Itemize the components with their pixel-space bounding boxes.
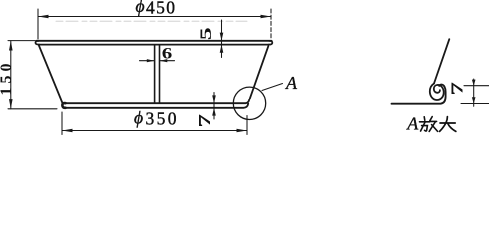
detail dimension 7 extension line top (464, 85, 489, 87)
dimension phi350 extension line right (246, 116, 248, 135)
dimension 5 line with outside arrows (220, 20, 224, 58)
vessel bottom lower line (64, 104, 248, 108)
svg-text:5: 5 (198, 27, 215, 40)
dimension 150 extension line top (8, 40, 35, 42)
dimension phi450 extension line left (37, 9, 39, 39)
label A (285, 73, 298, 93)
svg-text:A: A (285, 73, 298, 93)
dimension 6 left arrow segment (140, 59, 155, 62)
dimension text 5 (rotated) (198, 27, 215, 40)
dimension text 150 (rotated) (0, 60, 15, 96)
dimension 6 right arrow segment (160, 59, 175, 62)
dimension 150 extension line bottom (8, 108, 57, 110)
leader line to label A (262, 84, 283, 91)
vessel left wall (39, 46, 63, 104)
detail view curled edge spiral (430, 84, 444, 101)
detail view wall diagonal (434, 39, 449, 83)
detail dimension 7 extension line bottom (461, 103, 489, 105)
svg-text:ϕ350: ϕ350 (134, 107, 179, 128)
vessel rim top line (36, 40, 271, 42)
detail circle A (233, 87, 265, 119)
detail label glyph DA (enlarge) (440, 117, 456, 132)
vessel rim right rolled end (269, 41, 273, 45)
vessel rim bottom line (39, 44, 270, 46)
detail view bottom sheet with upturned end (392, 85, 446, 104)
dimension text phi450 (136, 0, 177, 17)
dimension phi350 line with arrows (62, 129, 247, 133)
dimension 7 (main) line with outside arrows (212, 93, 216, 120)
dimension text 6 (162, 46, 173, 63)
detail dimension text 7 (rotated) (448, 82, 467, 96)
svg-text:6: 6 (162, 46, 173, 63)
svg-text:7: 7 (195, 114, 214, 128)
svg-text:7: 7 (448, 82, 467, 96)
dimension text 7 main (rotated) (195, 114, 214, 128)
center rib right line (159, 45, 161, 102)
dimension phi350 extension line left (61, 112, 63, 135)
vessel right wall (250, 46, 268, 98)
detail label glyph FANG (enlarge) (420, 117, 438, 132)
svg-text:ϕ450: ϕ450 (136, 0, 177, 17)
vessel bottom top line with right curl (65, 100, 249, 104)
vessel rim left rolled end (35, 41, 39, 45)
svg-text:150: 150 (0, 60, 15, 96)
dimension phi450 extension line right (270, 9, 272, 38)
svg-text:A: A (406, 114, 419, 134)
faint scan bleed line under phi450 dimension (56, 20, 247, 22)
center rib left line (154, 45, 156, 102)
detail dimension 7 line with outside arrows (472, 79, 476, 106)
detail label A italic (406, 114, 419, 134)
vessel bottom left curled end (62, 103, 65, 108)
dimension text phi350 (134, 107, 179, 128)
dimension 150 line with arrows (9, 41, 13, 109)
dimension phi450 line with arrows (38, 15, 271, 19)
